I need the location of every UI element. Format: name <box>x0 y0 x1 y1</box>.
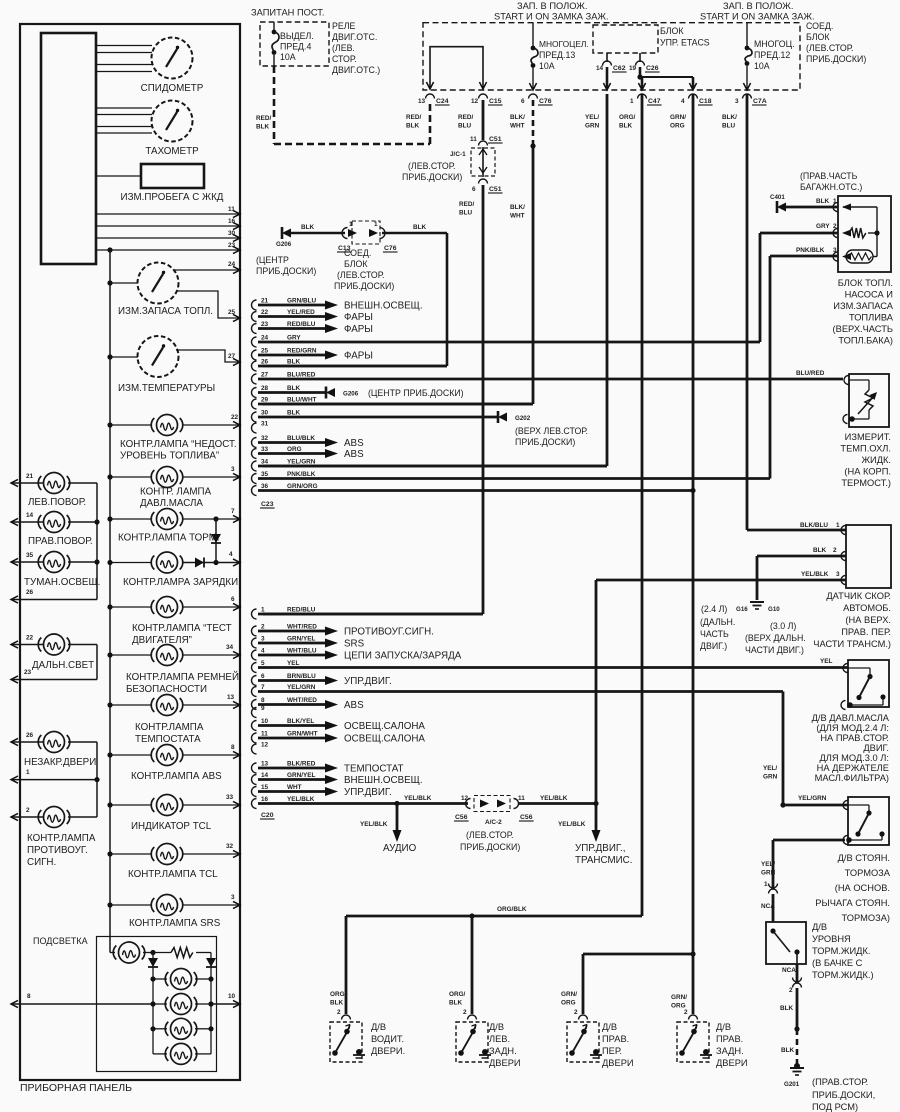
svg-text:ДЛЯ МОД.3.0 Л:: ДЛЯ МОД.3.0 Л: <box>819 753 889 763</box>
svg-text:PNK/BLK: PNK/BLK <box>796 247 825 254</box>
svg-text:10А: 10А <box>754 61 770 71</box>
svg-text:YEL: YEL <box>820 658 833 665</box>
svg-text:12: 12 <box>471 98 479 105</box>
svg-text:6: 6 <box>261 673 265 680</box>
svg-text:КОНТР.ЛАМПА TCL: КОНТР.ЛАМПА TCL <box>128 869 218 880</box>
svg-text:ПЕР.: ПЕР. <box>602 1046 622 1056</box>
svg-text:31: 31 <box>261 421 269 428</box>
svg-text:МАСЛ.ФИЛЬТРА): МАСЛ.ФИЛЬТРА) <box>815 773 889 783</box>
wire left lamp row pin 21 <box>11 482 43 484</box>
node bus junction <box>107 247 112 252</box>
svg-text:ДВЕРИ: ДВЕРИ <box>489 1058 521 1068</box>
svg-text:GRN/WHT: GRN/WHT <box>287 731 318 738</box>
svg-text:BLK: BLK <box>449 1000 463 1007</box>
wire BLK/WHT vertical <box>532 100 535 146</box>
svg-text:25: 25 <box>228 309 236 316</box>
lamp illumination 3 <box>171 1018 192 1039</box>
svg-text:ТОРМ.ЖИДК.: ТОРМ.ЖИДК. <box>812 946 870 956</box>
svg-text:WHT: WHT <box>510 213 525 220</box>
svg-text:(ЛЕВ.СТОР.: (ЛЕВ.СТОР. <box>408 161 455 171</box>
svg-text:2: 2 <box>574 1009 578 1016</box>
svg-text:BLU/RED: BLU/RED <box>287 372 316 379</box>
wire PNK/BLK riser to fuel sender <box>769 256 772 479</box>
svg-text:GRN/: GRN/ <box>671 994 687 1001</box>
C23 pin 22 wire YEL/RED <box>252 312 257 322</box>
thermistor symbol <box>849 379 869 381</box>
svg-text:(ЦЕНТР ПРИБ.ДОСКИ): (ЦЕНТР ПРИБ.ДОСКИ) <box>368 388 464 398</box>
svg-text:11: 11 <box>470 136 477 143</box>
svg-text:YEL/BLK: YEL/BLK <box>404 795 432 802</box>
svg-text:BLK: BLK <box>287 385 301 392</box>
svg-text:ORG/BLK: ORG/BLK <box>497 906 527 913</box>
svg-text:ИНДИКАТОР TCL: ИНДИКАТОР TCL <box>131 821 212 832</box>
svg-text:BLK/BLU: BLK/BLU <box>800 522 828 529</box>
node GRN/ORG joins C23 pin36 <box>690 488 695 493</box>
gauge tachometer ТАХОМЕТР <box>152 101 193 142</box>
oil pressure switch Д/В ДАВЛ.МАСЛА <box>848 660 889 707</box>
svg-text:35: 35 <box>261 471 269 478</box>
wire charge lamp row <box>110 562 151 564</box>
svg-text:YEL/GRN: YEL/GRN <box>287 684 316 691</box>
svg-text:BLK: BLK <box>330 1000 344 1007</box>
fuel pump and sender unit БЛОК ТОПЛ.НАСОСА <box>838 196 891 272</box>
indicator lamp КОНТР.ЛАМПА <box>44 807 65 828</box>
svg-text:ABS: ABS <box>344 700 364 711</box>
indicator lamp КОНТР.ЛАМПА НЕДОСТ.УРОВЕНЬ <box>157 415 178 436</box>
svg-text:A/C-2: A/C-2 <box>485 819 502 826</box>
svg-text:C15: C15 <box>489 98 502 105</box>
svg-text:30: 30 <box>228 230 236 237</box>
svg-text:Д/В: Д/В <box>602 1022 617 1032</box>
svg-text:1: 1 <box>833 198 837 205</box>
svg-text:10: 10 <box>228 993 236 1000</box>
svg-text:ПРИБ.ДОСКИ): ПРИБ.ДОСКИ) <box>460 842 520 852</box>
svg-text:КОНТР.ЛАМРА ЗАРЯДКИ: КОНТР.ЛАМРА ЗАРЯДКИ <box>123 577 238 588</box>
svg-text:C62: C62 <box>613 65 626 72</box>
gauge temperature ИЗМ.ТЕМПЕРАТУРЫ <box>138 336 179 377</box>
wire YEL/BLK riser to speed sensor pin3 <box>595 580 598 804</box>
C20 pin 6 wire BRN/BLU <box>252 676 257 686</box>
ground G201 ПРАВ.СТОР. ПРИБ.ДОСКИ <box>790 1067 804 1069</box>
svg-text:22: 22 <box>26 635 34 642</box>
svg-text:ОСВЕЩ.САЛОНА: ОСВЕЩ.САЛОНА <box>344 721 425 732</box>
ground door switch <box>356 1049 362 1055</box>
svg-text:33: 33 <box>226 794 234 801</box>
wire lamp output pin 3 <box>183 904 240 906</box>
svg-text:ПРИБ.ДОСКИ): ПРИБ.ДОСКИ) <box>256 266 316 276</box>
C23 pin 31 <box>252 423 257 433</box>
svg-text:(2.4 Л): (2.4 Л) <box>701 604 727 614</box>
svg-text:3: 3 <box>735 98 739 105</box>
panel output wires pins 11 16 30 23 <box>96 213 240 215</box>
diode illumination right <box>206 958 216 967</box>
svg-text:БЕЗОПАСНОСТИ: БЕЗОПАСНОСТИ <box>126 684 207 695</box>
svg-text:КОНТР.ЛАМПА ТОРМ.: КОНТР.ЛАМПА ТОРМ. <box>118 533 220 544</box>
C20 pin 10 wire BLK/YEL <box>252 721 257 731</box>
fuse ПРЕД.4 10А <box>273 22 275 30</box>
svg-text:WHT/RED: WHT/RED <box>287 624 317 631</box>
C23 pin 36 wire GRN/ORG <box>252 486 257 496</box>
svg-text:ПРИБОРНАЯ ПАНЕЛЬ: ПРИБОРНАЯ ПАНЕЛЬ <box>20 1082 132 1094</box>
wire lamp output pin 8 <box>183 754 240 756</box>
svg-text:3: 3 <box>231 894 235 901</box>
svg-text:1: 1 <box>836 522 840 529</box>
wire left group2 return pin 23 <box>11 679 97 681</box>
svg-text:PNK/BLK: PNK/BLK <box>287 471 316 478</box>
svg-text:14: 14 <box>596 65 604 72</box>
svg-text:НАСОСА И: НАСОСА И <box>845 290 893 300</box>
svg-text:BLK/: BLK/ <box>722 114 737 121</box>
svg-text:C51: C51 <box>489 136 502 143</box>
svg-text:BLU/BLK: BLU/BLK <box>287 435 315 442</box>
svg-text:BRN/BLU: BRN/BLU <box>287 673 316 680</box>
indicator lamp ИНДИКАТОР TCL <box>157 795 178 816</box>
svg-text:NCA: NCA <box>782 967 796 974</box>
svg-text:G10: G10 <box>768 606 780 613</box>
connector NCA 1 <box>769 884 778 889</box>
svg-text:GRN/ORG: GRN/ORG <box>287 483 318 490</box>
svg-text:10А: 10А <box>539 61 555 71</box>
indicator lamp КОНТР.ЛАМПА ТОРМ. <box>157 509 178 530</box>
svg-text:BLK: BLK <box>413 224 427 231</box>
svg-text:БЛОК ТОПЛ.: БЛОК ТОПЛ. <box>838 278 893 288</box>
wire BLK/WHT to C23 pin29 <box>263 403 533 406</box>
svg-text:ТОПЛИВА: ТОПЛИВА <box>849 313 894 323</box>
C20 pin 9 <box>252 708 257 718</box>
indicator lamp КОНТР. ЛАМПА ДАВЛ.МАСЛА <box>157 467 178 488</box>
wire illumination rails <box>152 953 154 1054</box>
wire lamp output pin 6 <box>183 606 240 608</box>
C20 pin 5 wire YEL <box>252 663 257 673</box>
svg-text:НЕЗАКР.ДВЕРИ: НЕЗАКР.ДВЕРИ <box>24 757 96 768</box>
wire left lamp row pin 26 <box>11 741 43 743</box>
svg-text:8: 8 <box>231 744 235 751</box>
svg-text:36: 36 <box>261 483 269 490</box>
arrow to audio АУДИО <box>396 804 399 831</box>
svg-text:ЗАП. В ПОЛОЖ.: ЗАП. В ПОЛОЖ. <box>723 1 793 11</box>
C23 pin 29 wire BLU/WHT <box>252 399 257 409</box>
svg-text:ORG: ORG <box>287 446 302 453</box>
svg-text:BLU: BLU <box>458 123 472 130</box>
svg-text:RED/: RED/ <box>256 115 271 122</box>
resistor fuel sender <box>842 230 851 237</box>
ground G206 ЦЕНТР ПРИБ.ДОСКИ <box>282 229 291 238</box>
diode illumination left <box>148 958 158 967</box>
wire GRN/ORG right front door branch <box>690 951 695 956</box>
svg-text:ДВЕРИ: ДВЕРИ <box>602 1058 634 1068</box>
svg-text:ПОД РСМ): ПОД РСМ) <box>812 1102 858 1112</box>
svg-text:5: 5 <box>261 660 265 667</box>
svg-text:ORG/: ORG/ <box>330 991 347 998</box>
svg-text:2: 2 <box>833 547 837 554</box>
svg-text:ПРЕД.4: ПРЕД.4 <box>280 42 311 52</box>
svg-text:УПР. ETACS: УПР. ETACS <box>660 38 710 48</box>
svg-text:29: 29 <box>261 397 269 404</box>
svg-text:ПРОТИВОУГ.СИГН.: ПРОТИВОУГ.СИГН. <box>344 627 434 638</box>
lamp illumination 2 <box>171 994 192 1015</box>
C20 pin 8 wire WHT/RED <box>252 700 257 710</box>
svg-text:28: 28 <box>261 385 269 392</box>
svg-text:БЛОК: БЛОК <box>660 26 684 36</box>
wire left group3 rail <box>96 742 98 817</box>
svg-text:ORG/: ORG/ <box>449 991 466 998</box>
connector C62 pin 14 <box>606 53 608 62</box>
wire left group1 return pin 26 <box>11 599 97 601</box>
svg-text:ИЗМ.ЗАПАСА: ИЗМ.ЗАПАСА <box>833 301 894 311</box>
C20 pin 2 wire WHT/RED <box>252 626 257 636</box>
brake fluid level switch Д/В УРОВНЯ ТОРМ.ЖИДК. <box>766 922 806 964</box>
svg-text:6: 6 <box>231 596 235 603</box>
svg-text:(ПРАВ.ЧАСТЬ: (ПРАВ.ЧАСТЬ <box>800 171 858 181</box>
svg-text:YEL/BLK: YEL/BLK <box>801 571 829 578</box>
wire lamp feed <box>110 424 151 426</box>
svg-text:КОНТР.ЛАМПА: КОНТР.ЛАМПА <box>135 722 204 733</box>
svg-text:РЫЧАГА СТОЯН.: РЫЧАГА СТОЯН. <box>815 898 890 908</box>
svg-text:ДВИГАТЕЛЯ”: ДВИГАТЕЛЯ” <box>132 635 192 646</box>
svg-text:G16: G16 <box>736 606 748 613</box>
svg-text:16: 16 <box>228 218 236 225</box>
svg-text:КОНТР.ЛАМПА ABS: КОНТР.ЛАМПА ABS <box>131 771 222 782</box>
svg-text:2: 2 <box>789 987 793 994</box>
wire BLK to ground G201 <box>796 964 799 982</box>
svg-text:START И ON ЗАМКА ЗАЖ.: START И ON ЗАМКА ЗАЖ. <box>494 12 609 22</box>
svg-text:BLK/: BLK/ <box>510 114 525 121</box>
svg-text:МНОГОЦ.: МНОГОЦ. <box>754 39 795 49</box>
wire brake lamp output pin 7 <box>183 518 240 520</box>
wire tachometer leads <box>96 107 152 109</box>
svg-text:13: 13 <box>418 98 426 105</box>
indicator lamp НЕЗАКР.ДВЕРИ <box>44 732 65 753</box>
svg-text:C47: C47 <box>648 98 661 105</box>
svg-text:GRN/: GRN/ <box>670 114 686 121</box>
wire loop to C24 C15 <box>430 47 483 88</box>
svg-text:КОНТР.ЛАМПА РЕМНЕЙ: КОНТР.ЛАМПА РЕМНЕЙ <box>126 671 239 683</box>
svg-text:ПРИБ.ДОСКИ): ПРИБ.ДОСКИ) <box>806 54 866 64</box>
wire lamp output pin 33 <box>183 804 240 806</box>
svg-text:1: 1 <box>630 98 634 105</box>
wire RED/BLU vertical <box>482 100 485 140</box>
svg-text:ФАРЫ: ФАРЫ <box>344 324 373 335</box>
svg-text:3: 3 <box>836 571 840 578</box>
svg-text:(ВЕРХ ЛЕВ.СТОР.: (ВЕРХ ЛЕВ.СТОР. <box>515 426 588 436</box>
wire YEL/GRN down to parking brake <box>782 692 785 806</box>
svg-text:НА ПРАВ.СТОР.: НА ПРАВ.СТОР. <box>820 733 889 743</box>
svg-text:11: 11 <box>261 731 268 738</box>
svg-text:GRY: GRY <box>816 223 830 230</box>
svg-text:ЛЕВ.ПОВОР.: ЛЕВ.ПОВОР. <box>28 497 86 508</box>
wire lamp feed <box>110 476 151 478</box>
svg-text:13: 13 <box>261 761 269 768</box>
svg-text:RED/: RED/ <box>459 201 474 208</box>
svg-text:(ДЛЯ МОД.2.4 Л:: (ДЛЯ МОД.2.4 Л: <box>816 723 889 733</box>
svg-text:2: 2 <box>261 624 265 631</box>
svg-text:YEL/GRN: YEL/GRN <box>798 795 827 802</box>
indicator lamp КОНТР.ЛАМПА ABS <box>157 745 178 766</box>
svg-text:ТАХОМЕТР: ТАХОМЕТР <box>145 146 199 157</box>
svg-text:ПРАВ. ПЕР.: ПРАВ. ПЕР. <box>841 627 891 637</box>
wire ORG/BLK vertical <box>641 94 644 916</box>
svg-text:23: 23 <box>24 669 32 676</box>
svg-text:ПРИБ.ДОСКИ): ПРИБ.ДОСКИ) <box>515 437 575 447</box>
wire RED/BLK dashed from fuse4 <box>273 55 275 66</box>
svg-text:АВТОМОБ.: АВТОМОБ. <box>843 603 891 613</box>
svg-text:RED/BLU: RED/BLU <box>287 607 316 614</box>
svg-text:11: 11 <box>518 795 525 802</box>
wire GRN/ORG vertical <box>692 94 695 1014</box>
lamp illumination 1 <box>171 969 192 990</box>
svg-text:G206: G206 <box>276 241 292 248</box>
svg-text:27: 27 <box>261 372 269 379</box>
svg-text:RED/: RED/ <box>458 114 473 121</box>
svg-text:7: 7 <box>261 684 265 691</box>
svg-text:YEL/BLK: YEL/BLK <box>287 796 315 803</box>
svg-text:2: 2 <box>463 1009 467 1016</box>
indicator lamp КОНТР.ЛАМПА ТЕМПОСТАТА <box>157 695 178 716</box>
svg-text:СПИДОМЕТР: СПИДОМЕТР <box>141 83 204 94</box>
connector row below ignition box <box>426 94 435 99</box>
fuel pump element <box>842 253 851 260</box>
svg-text:ПРАВ.: ПРАВ. <box>716 1034 743 1044</box>
LCD odometer ИЗМ.ПРОБЕГА С ЖКД <box>141 164 204 188</box>
ground door switch <box>703 1049 709 1055</box>
C23 pin 33 wire ORG <box>252 449 257 459</box>
svg-text:BLK: BLK <box>813 547 827 554</box>
wire fuel gauge output pin 24 <box>174 269 240 271</box>
svg-text:2: 2 <box>833 223 837 230</box>
svg-text:16: 16 <box>261 796 269 803</box>
wire YEL/GRN vertical <box>606 94 609 466</box>
wire left lamp row pin 14 <box>11 521 43 523</box>
svg-text:ПРИБ.ДОСКИ): ПРИБ.ДОСКИ) <box>334 281 394 291</box>
svg-text:ДВИГ.ОТС.): ДВИГ.ОТС.) <box>332 65 380 75</box>
wire left group3 return pin 1 <box>11 779 97 781</box>
svg-text:C56: C56 <box>520 814 533 821</box>
oil switch contacts <box>848 667 870 669</box>
svg-text:BLK: BLK <box>256 124 270 131</box>
svg-text:GRN/YEL: GRN/YEL <box>287 636 316 643</box>
svg-text:КОНТР. ЛАМПА: КОНТР. ЛАМПА <box>140 487 212 498</box>
svg-text:YEL/: YEL/ <box>761 861 775 868</box>
svg-text:BLK: BLK <box>301 224 315 231</box>
svg-text:BLK: BLK <box>619 123 633 130</box>
svg-text:ORG: ORG <box>670 123 685 130</box>
svg-text:ФАРЫ: ФАРЫ <box>344 312 373 323</box>
svg-text:GRN: GRN <box>761 870 776 877</box>
C20 pin 13 wire BLK/RED <box>252 763 257 773</box>
svg-text:АУДИО: АУДИО <box>383 843 417 854</box>
svg-text:ЦЕПИ ЗАПУСКА/ЗАРЯДА: ЦЕПИ ЗАПУСКА/ЗАРЯДА <box>344 651 462 662</box>
svg-text:1: 1 <box>26 769 30 776</box>
junction connector J/C-1 C51 <box>479 141 488 146</box>
svg-text:24: 24 <box>228 261 236 268</box>
svg-text:10: 10 <box>261 718 269 725</box>
node audio branch <box>394 801 399 806</box>
svg-text:ORG: ORG <box>561 1000 576 1007</box>
svg-text:26: 26 <box>261 359 269 366</box>
indicator lamp ДАЛЬН.СВЕТ <box>44 634 65 655</box>
svg-text:ИЗМЕРИТ.: ИЗМЕРИТ. <box>845 432 891 442</box>
svg-text:(ВЕРХ ДАЛЬН.: (ВЕРХ ДАЛЬН. <box>745 633 806 643</box>
svg-text:ДВЕРИ.: ДВЕРИ. <box>371 1046 405 1056</box>
svg-text:КОНТР.ЛАМПА SRS: КОНТР.ЛАМПА SRS <box>129 918 221 929</box>
svg-text:C76: C76 <box>539 98 552 105</box>
svg-text:BLK: BLK <box>781 1047 795 1054</box>
svg-text:C18: C18 <box>699 98 712 105</box>
svg-text:ПРАВ.: ПРАВ. <box>602 1034 629 1044</box>
svg-text:ЗАПИТАН ПОСТ.: ЗАПИТАН ПОСТ. <box>251 8 325 18</box>
svg-text:УРОВНЯ: УРОВНЯ <box>812 934 851 944</box>
svg-text:2: 2 <box>684 1009 688 1016</box>
svg-text:BLU: BLU <box>459 210 473 217</box>
svg-text:22: 22 <box>261 309 269 316</box>
gauge fuel ИЗМ.ЗАПАСА ТОПЛ. <box>138 263 179 304</box>
svg-text:(ЛЕВ.: (ЛЕВ. <box>332 43 355 53</box>
svg-text:ЗАДН.: ЗАДН. <box>489 1046 517 1056</box>
wire temp gauge feed <box>110 356 138 358</box>
ignition feed dashed box <box>423 23 800 90</box>
svg-text:ДВЕРИ: ДВЕРИ <box>716 1058 748 1068</box>
wire lamp feed <box>110 853 151 855</box>
svg-text:WHT/BLU: WHT/BLU <box>287 648 317 655</box>
indicator lamp КОНТР.ЛАМПА РЕМНЕЙ БЕЗОПАСНОСТИ <box>157 645 178 666</box>
svg-text:BLK/: BLK/ <box>510 204 525 211</box>
svg-text:C24: C24 <box>436 98 449 105</box>
C20 pin 16 wire YEL/BLK <box>252 799 257 809</box>
svg-text:GRN: GRN <box>585 123 600 130</box>
svg-text:СТОР.: СТОР. <box>332 54 357 64</box>
svg-text:ТЕРМОСТ.): ТЕРМОСТ.) <box>841 478 891 488</box>
svg-text:ЧАСТЬ: ЧАСТЬ <box>700 629 729 639</box>
svg-text:ИЗМ.ЗАПАСА ТОПЛ.: ИЗМ.ЗАПАСА ТОПЛ. <box>118 306 213 317</box>
svg-text:9: 9 <box>261 705 265 712</box>
wire lamp feed <box>110 904 151 906</box>
svg-text:34: 34 <box>261 459 269 466</box>
svg-text:12: 12 <box>461 795 469 802</box>
svg-text:11: 11 <box>228 206 235 213</box>
svg-text:BLU: BLU <box>722 123 736 130</box>
wire RED/BLU to C20 pin1 <box>263 613 483 616</box>
svg-text:YEL/: YEL/ <box>585 114 599 121</box>
wire brake lamp row <box>110 518 151 520</box>
svg-text:ABS: ABS <box>344 438 364 449</box>
svg-text:35: 35 <box>26 552 34 559</box>
svg-text:3: 3 <box>231 466 235 473</box>
svg-text:RED/GRN: RED/GRN <box>287 348 317 355</box>
C23 pin 23 wire RED/BLU <box>252 324 257 334</box>
svg-text:ДАЛЬН.СВЕТ: ДАЛЬН.СВЕТ <box>32 660 94 671</box>
svg-text:ПРЕД.13: ПРЕД.13 <box>539 50 575 60</box>
wire lamp feed <box>110 704 151 706</box>
wire YEL/BLK after C56 <box>518 802 596 805</box>
parking brake contacts <box>848 804 869 806</box>
svg-text:26: 26 <box>26 589 34 596</box>
svg-text:C51: C51 <box>489 186 502 193</box>
svg-text:(ЛЕВ.СТОР.: (ЛЕВ.СТОР. <box>806 43 853 53</box>
svg-text:GRY: GRY <box>287 335 301 342</box>
svg-text:4: 4 <box>261 648 265 655</box>
svg-text:YEL/: YEL/ <box>763 765 777 772</box>
wire left group2 rail <box>96 645 98 680</box>
svg-text:GRN: GRN <box>763 774 778 781</box>
wire lamp output pin 22 <box>183 424 240 426</box>
svg-text:УПР.ДВИГ.: УПР.ДВИГ. <box>344 787 392 798</box>
resistor illumination <box>153 952 171 954</box>
wire lamp feed <box>110 606 151 608</box>
wire lamp feed <box>110 754 151 756</box>
connector C401 ground side <box>777 203 786 212</box>
svg-text:БЛОК: БЛОК <box>806 32 830 42</box>
svg-text:ВОДИТ.: ВОДИТ. <box>371 1034 404 1044</box>
